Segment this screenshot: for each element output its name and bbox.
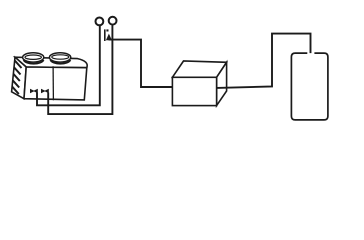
condensing unit front face bbox=[24, 67, 87, 100]
front panel divider bbox=[52, 66, 54, 100]
gauge 1 (left) bbox=[96, 18, 104, 26]
recovery cylinder bbox=[291, 53, 328, 120]
fan 2 (right) bbox=[49, 53, 70, 64]
manifold valve wedge bbox=[106, 34, 112, 41]
service valve 2 (bowtie) bbox=[41, 89, 49, 93]
hose from valve 1 to low-side gauge bbox=[37, 26, 100, 106]
fan 1 (left) bbox=[23, 53, 44, 64]
recovery machine right face bbox=[217, 62, 227, 105]
hose from manifold to recovery machine bbox=[109, 40, 173, 87]
service valve 1 (bowtie) bbox=[30, 89, 38, 93]
recovery machine top face bbox=[172, 61, 226, 77]
condensing unit top face bbox=[15, 57, 87, 67]
gauge 2 (right) bbox=[109, 17, 117, 25]
recovery machine front face bbox=[172, 77, 216, 105]
condensing unit left side face bbox=[12, 57, 27, 98]
hose from valve 2 to high-side gauge bbox=[48, 25, 112, 114]
manifold valve stem bbox=[104, 29, 106, 41]
manifold valve tick bbox=[106, 29, 108, 31]
hose from recovery machine to cylinder bbox=[217, 34, 311, 88]
